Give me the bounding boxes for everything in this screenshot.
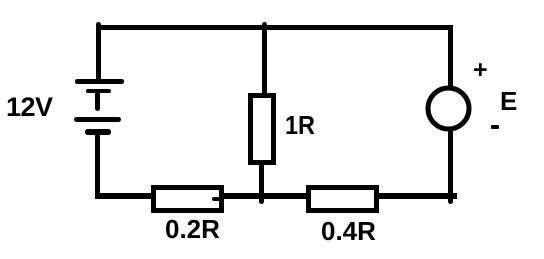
wire battery to bottom rail bbox=[95, 132, 100, 194]
source E (circle) bbox=[423, 83, 474, 134]
resistor R1 0.2R (box) bbox=[151, 185, 224, 213]
label - (source polarity) bbox=[491, 125, 499, 129]
wire bottom rail bbox=[95, 193, 458, 199]
label 12V bbox=[6, 94, 53, 121]
wire 1R to bottom rail (node junction below) bbox=[259, 160, 264, 204]
wire middle branch (top rail to 1R) bbox=[262, 22, 267, 94]
label E bbox=[500, 88, 517, 114]
resistor R2 1R (vertical box) bbox=[248, 93, 277, 165]
wire top rail bbox=[96, 25, 453, 30]
label 0.4R bbox=[321, 218, 376, 244]
wire source E to bottom rail (node junction below) bbox=[448, 130, 454, 204]
battery B1 12V : inter-cell stub bbox=[95, 92, 100, 111]
label 1R bbox=[285, 114, 315, 140]
battery B1 12V : short plate 2 bbox=[85, 129, 111, 135]
resistor R3 0.4R (box) bbox=[306, 185, 379, 213]
wire stub inside 0.2R right wall bbox=[212, 197, 219, 201]
label 0.2R bbox=[165, 216, 220, 242]
battery B1 12V : long plate 1 bbox=[75, 79, 125, 83]
label + (source polarity) bbox=[473, 58, 488, 83]
battery B1 12V : short plate 1 bbox=[86, 89, 111, 94]
wire left branch (top rail to battery) bbox=[96, 22, 101, 80]
wire right branch (top rail to source E) bbox=[448, 25, 453, 87]
battery B1 12V : long plate 2 bbox=[74, 117, 121, 122]
